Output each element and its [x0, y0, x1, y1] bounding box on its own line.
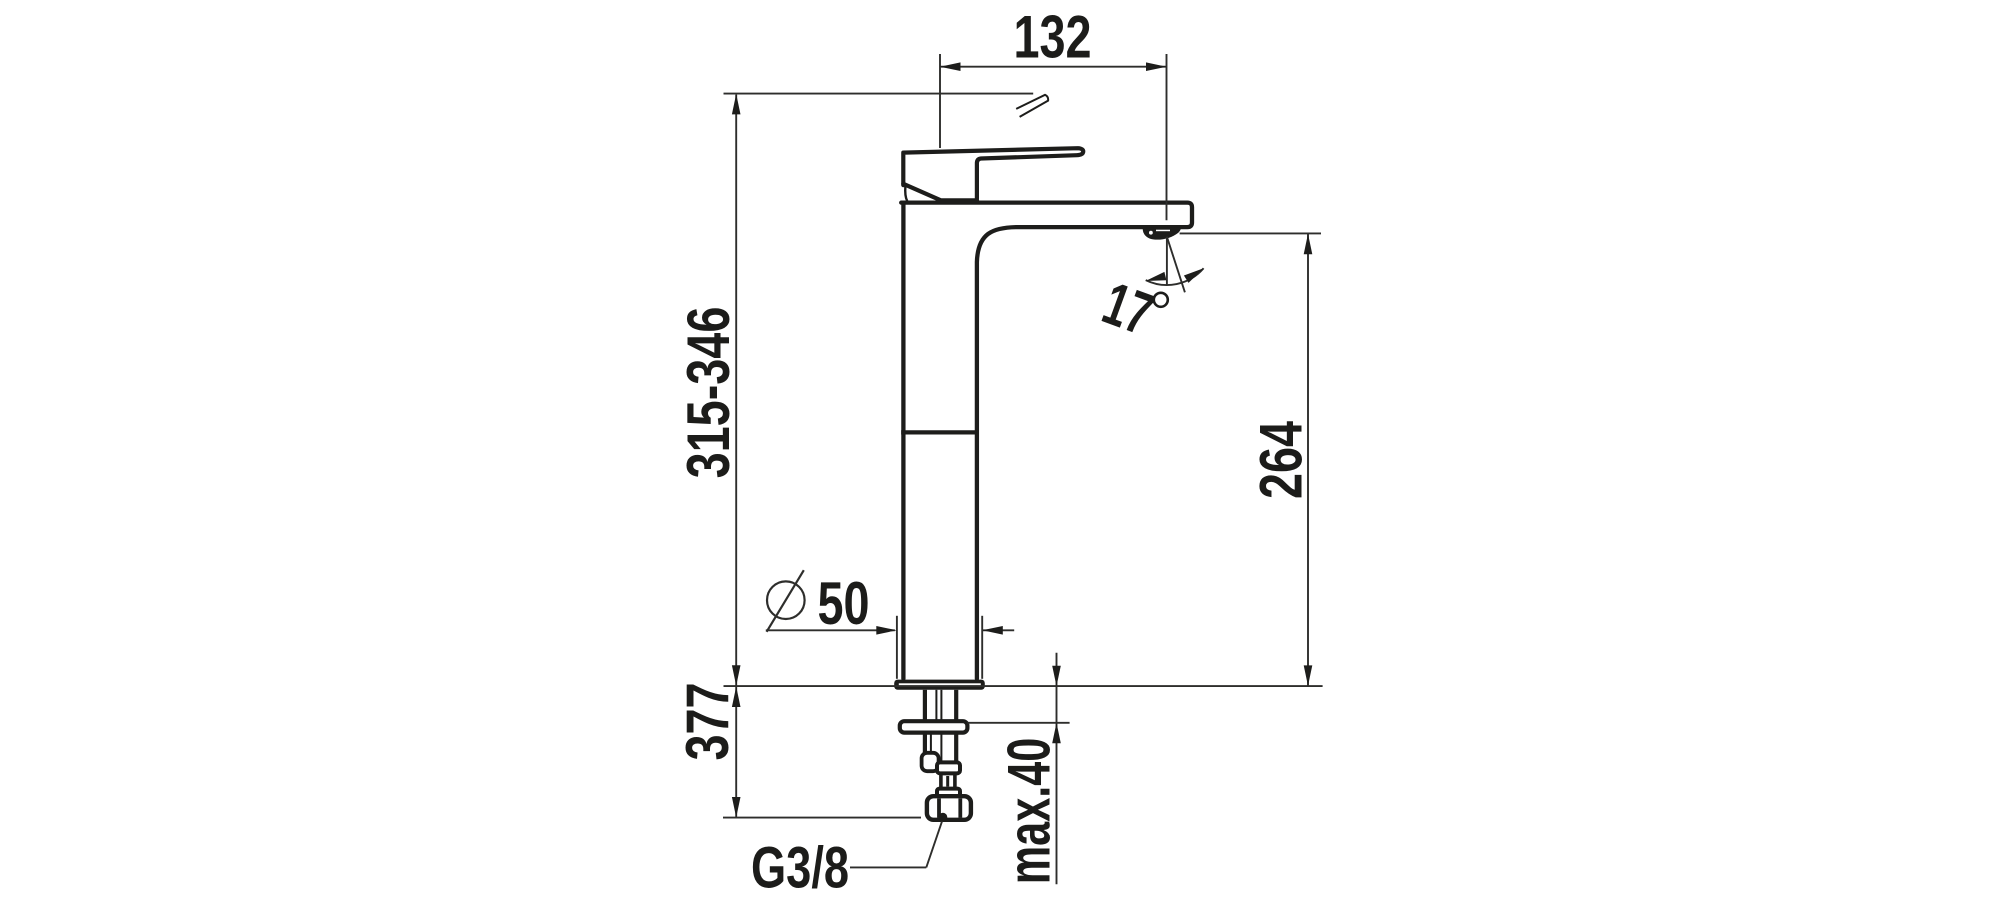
hex nut	[927, 796, 971, 820]
shank tubes below washer	[925, 733, 956, 762]
hose collar 2	[937, 789, 960, 797]
base plate	[894, 680, 985, 690]
column joint line	[901, 430, 977, 434]
svg-text:G3/8: G3/8	[751, 836, 849, 900]
dimension 264	[1180, 233, 1321, 686]
aerator outlet	[1143, 227, 1181, 240]
svg-text:max.40: max.40	[997, 738, 1064, 884]
svg-text:264: 264	[1248, 421, 1315, 499]
svg-text:50: 50	[817, 570, 869, 637]
svg-text:132: 132	[1013, 4, 1091, 71]
hose neck	[941, 773, 955, 788]
svg-text:315-346: 315-346	[675, 307, 742, 479]
extension line top (315-346 upper reference)	[724, 93, 1034, 95]
dimension 132	[940, 54, 1167, 220]
extension line at deck level	[724, 685, 1323, 687]
faucet handle lever	[903, 148, 1083, 200]
mounting washer	[900, 721, 968, 732]
dimension max.40	[967, 653, 1069, 885]
handle escutcheon edge	[905, 186, 907, 201]
hose fitting collar	[937, 762, 960, 773]
break symbol	[1016, 95, 1048, 117]
shank tubes above washer	[925, 690, 956, 720]
stud foot	[922, 753, 939, 771]
svg-text:377: 377	[674, 682, 741, 760]
extension line at hose nut bottom	[723, 817, 921, 819]
faucet body and spout	[901, 203, 1192, 679]
dimension diameter 50	[767, 570, 805, 632]
dimension 315-346 / 377 vertical line	[735, 95, 737, 818]
angle 17 degrees	[1146, 237, 1204, 292]
